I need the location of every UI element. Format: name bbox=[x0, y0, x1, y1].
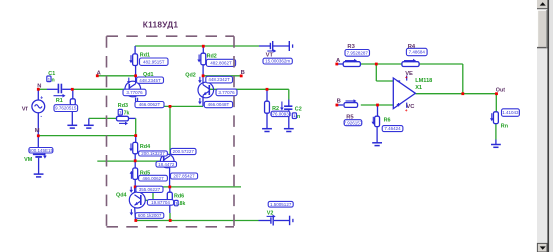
svg-text:Rd1: Rd1 bbox=[140, 53, 150, 59]
svg-text:R4: R4 bbox=[408, 44, 416, 50]
svg-text:Qd4: Qd4 bbox=[116, 192, 126, 198]
svg-text:Qd1: Qd1 bbox=[143, 72, 153, 78]
svg-text:VM: VM bbox=[24, 157, 33, 163]
svg-text:482.9515T: 482.9515T bbox=[143, 59, 165, 64]
svg-text:n: n bbox=[52, 78, 55, 84]
svg-text:R6: R6 bbox=[384, 117, 391, 123]
svg-text:355.06227: 355.06227 bbox=[139, 187, 161, 192]
svg-text:VT: VT bbox=[266, 53, 274, 59]
svg-text:X1: X1 bbox=[415, 85, 422, 91]
svg-text:M: M bbox=[35, 128, 40, 134]
svg-text:N: N bbox=[37, 84, 41, 90]
svg-text:B: B bbox=[241, 70, 245, 76]
svg-text:Vf: Vf bbox=[22, 106, 28, 112]
svg-text:B: B bbox=[337, 99, 341, 105]
svg-text:466.0048T: 466.0048T bbox=[208, 102, 230, 107]
svg-text:Rd5: Rd5 bbox=[140, 171, 150, 177]
svg-text:К118УД1: К118УД1 bbox=[143, 20, 179, 30]
svg-text:.8k: .8k bbox=[178, 201, 185, 207]
svg-text:207.85427: 207.85427 bbox=[173, 174, 195, 179]
svg-text:7.48684: 7.48684 bbox=[409, 50, 426, 55]
svg-text:Rn: Rn bbox=[501, 124, 508, 130]
svg-text:482.8062T: 482.8062T bbox=[210, 60, 232, 65]
svg-text:-: - bbox=[40, 113, 42, 119]
svg-text:18.4472: 18.4472 bbox=[158, 162, 175, 167]
svg-text:R3: R3 bbox=[347, 44, 355, 50]
svg-text:R2: R2 bbox=[272, 106, 279, 112]
svg-text:1: 1 bbox=[48, 77, 50, 81]
svg-text:3.77076: 3.77076 bbox=[218, 90, 235, 95]
svg-text:1: 1 bbox=[119, 111, 121, 115]
svg-text:600.1k2007: 600.1k2007 bbox=[138, 213, 162, 218]
svg-text:7k: 7k bbox=[124, 110, 130, 116]
svg-text:LM118: LM118 bbox=[415, 78, 432, 84]
svg-text:448.2345T: 448.2345T bbox=[139, 78, 161, 83]
svg-text:1: 1 bbox=[293, 114, 295, 118]
svg-text:200.1k3237: 200.1k3237 bbox=[141, 151, 165, 156]
svg-text:19.87704: 19.87704 bbox=[151, 200, 170, 205]
svg-text:7.46424: 7.46424 bbox=[384, 126, 401, 131]
svg-text:7.926157: 7.926157 bbox=[344, 120, 363, 125]
svg-text:1.41043: 1.41043 bbox=[502, 110, 519, 115]
svg-text:Out: Out bbox=[496, 88, 505, 94]
svg-text:+: + bbox=[40, 96, 43, 102]
svg-text:Rd6: Rd6 bbox=[174, 194, 184, 200]
svg-text:7.9528287: 7.9528287 bbox=[347, 50, 369, 55]
svg-text:C1: C1 bbox=[48, 71, 55, 77]
svg-text:VC: VC bbox=[406, 104, 415, 110]
svg-text:VE: VE bbox=[405, 71, 413, 77]
svg-text:n: n bbox=[297, 114, 300, 120]
svg-text:Rd2: Rd2 bbox=[207, 54, 217, 60]
svg-text:9.7620515: 9.7620515 bbox=[55, 106, 77, 111]
svg-text:200.57227: 200.57227 bbox=[173, 149, 195, 154]
svg-text:C2: C2 bbox=[295, 107, 302, 113]
svg-text:Rd3: Rd3 bbox=[118, 103, 128, 109]
svg-text:Rd4: Rd4 bbox=[140, 144, 150, 150]
svg-text:600.145E15: 600.145E15 bbox=[29, 148, 54, 153]
svg-text:1.5005127: 1.5005127 bbox=[270, 202, 292, 207]
svg-text:1: 1 bbox=[175, 202, 177, 206]
svg-text:Qd2: Qd2 bbox=[185, 72, 195, 78]
svg-text:R1: R1 bbox=[56, 98, 63, 104]
svg-text:466.0062T: 466.0062T bbox=[139, 102, 161, 107]
svg-text:V2: V2 bbox=[267, 211, 274, 217]
svg-text:376.0093k: 376.0093k bbox=[270, 112, 292, 117]
svg-text:15.000362m: 15.000362m bbox=[265, 59, 290, 64]
svg-text:3.77076: 3.77076 bbox=[126, 90, 143, 95]
svg-text:R5: R5 bbox=[346, 115, 354, 121]
svg-text:448.2342T: 448.2342T bbox=[208, 77, 230, 82]
